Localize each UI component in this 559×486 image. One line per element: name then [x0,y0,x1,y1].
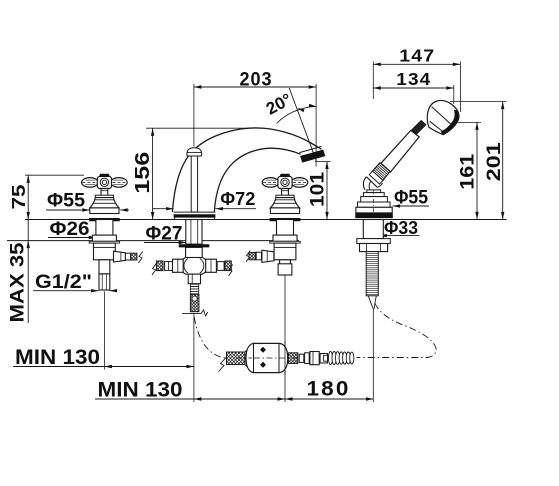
dimension 75 handle height [9,175,84,219]
label G1/2 thread [33,272,117,293]
svg-text:147: 147 [399,46,435,66]
hose nut at tee left port [147,259,183,275]
svg-text:75: 75 [9,185,29,210]
extension line shower centerline [372,308,374,402]
dimension MAX 35 deck thickness [8,220,30,324]
shower grip ribs [369,163,390,185]
label diameter 33 shower shank [379,218,419,238]
dimension 203 spout reach [194,70,316,167]
left valve body below deck [89,220,119,291]
deck mounting surface line [25,219,507,221]
label diameter 26 left shank [48,219,96,240]
hose routing curve right [357,303,437,358]
svg-text:Φ55: Φ55 [47,191,85,212]
shower cradle [363,177,382,190]
hose left valve to tee (outer) [114,251,144,263]
extension line left valve centerline [103,292,105,370]
svg-text:101: 101 [308,172,329,207]
shower mounting nut [357,220,391,252]
dimension 147 shower reach [373,46,460,113]
dimension MIN 130 left valve to spout [13,346,194,369]
tee fitting under spout [173,220,215,316]
left valve cross handle [82,174,128,222]
label diameter 55 left handle [46,191,129,212]
svg-text:MAX 35: MAX 35 [8,242,29,322]
svg-text:MIN 130: MIN 130 [15,346,100,369]
shower escutcheon [355,190,393,218]
svg-text:Φ27: Φ27 [146,224,183,245]
dimension 156 spout height [132,128,264,219]
svg-text:Φ26: Φ26 [50,219,90,240]
hose routing curve left [194,317,225,358]
hose nut at tee right port [206,259,241,276]
dimension MIN 130 and 180 row [95,378,374,402]
spout base flange [174,212,216,219]
svg-text:180: 180 [307,378,351,401]
svg-text:134: 134 [396,69,431,89]
svg-text:MIN 130: MIN 130 [98,379,183,402]
right valve cross handle [262,174,308,222]
hose coupling assembly [214,341,354,375]
shower handle [381,130,419,172]
dimension 101 outlet height [308,162,331,220]
svg-text:Φ72: Φ72 [220,189,255,209]
svg-text:203: 203 [240,70,273,91]
extension line right valve centerline [284,275,286,402]
spout outlet aerator [299,146,325,162]
shower threaded tail hose [366,252,378,310]
svg-text:Φ33: Φ33 [384,218,418,238]
svg-text:201: 201 [484,142,505,182]
svg-text:G1/2": G1/2" [35,272,92,293]
spout pull rod [187,148,202,212]
hose right valve inner nut [242,250,274,262]
deck underside line (MAX 35) [7,240,299,242]
label diameter 55 shower base [393,188,429,209]
svg-text:156: 156 [132,152,154,194]
svg-text:161: 161 [458,153,479,189]
shower head [427,100,459,134]
svg-text:Φ55: Φ55 [394,188,428,209]
dimension 161 shower height [456,122,481,219]
label diameter 72 spout base [153,189,256,210]
extension line spout centerline [193,313,195,402]
dimension 134 shower head [373,69,454,104]
dimension 20 degree spout angle [263,88,316,161]
spout gooseneck body [172,128,321,212]
dimension 201 shower top height [450,102,507,220]
label diameter 27 spout shank [144,224,186,245]
shower neck ring [412,121,426,134]
right valve body below deck [270,220,300,276]
